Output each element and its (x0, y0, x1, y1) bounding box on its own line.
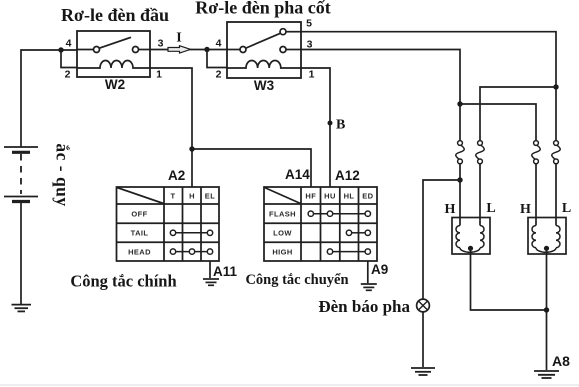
current arrow I (168, 46, 191, 53)
wire W3 terminal 1 down to dimmer switch HU (301, 68, 330, 187)
W3 contact upper pole (280, 29, 286, 35)
wire net 5: W3 terminal 5 to right lamp L (301, 32, 556, 141)
wire battery positive to relay W2 terminal 4 (21, 50, 77, 147)
wire net 5 branch to left lamp L (480, 87, 556, 141)
main switch HEAD contacts (170, 249, 212, 254)
svg-text:I: I (176, 31, 181, 46)
svg-text:Công tắc chính: Công tắc chính (70, 272, 176, 291)
wire H net to indicator lamp (423, 180, 460, 299)
svg-text:4: 4 (216, 38, 222, 50)
svg-text:W3: W3 (254, 78, 275, 93)
svg-text:Rơ-le đèn pha cốt: Rơ-le đèn pha cốt (195, 0, 330, 18)
svg-text:W2: W2 (105, 77, 125, 92)
svg-text:HF: HF (305, 191, 316, 200)
wire branch to dimmer switch HF (192, 149, 311, 187)
svg-text:HL: HL (344, 191, 355, 200)
svg-text:5: 5 (306, 18, 312, 30)
wire net 3: W3 terminal 3 to left lamp H (301, 50, 460, 141)
wire left lamp common (471, 248, 547, 310)
ground battery (12, 305, 32, 312)
svg-text:3: 3 (158, 38, 164, 50)
wire net 3 branch to right lamp H (460, 104, 536, 141)
connector pair on left lamp L wire (476, 141, 484, 218)
node B (328, 121, 333, 126)
wire W2 terminal 1 down to main switch (150, 68, 192, 187)
ground indicator (411, 368, 435, 375)
svg-text:TAIL: TAIL (131, 229, 149, 238)
wire main switch EL to ground A11 (209, 261, 211, 278)
svg-text:H: H (445, 202, 456, 217)
dimmer LOW contacts (346, 230, 370, 235)
wire indicator lamp to ground (422, 312, 424, 367)
svg-text:2: 2 (216, 69, 222, 81)
battery B1 (4, 147, 38, 202)
ground A9 (361, 284, 377, 290)
W2 contact left pole (94, 47, 100, 53)
ground A8 (534, 371, 559, 378)
dimmer FLASH contacts (308, 211, 370, 216)
svg-text:L: L (562, 201, 571, 216)
svg-text:A2: A2 (168, 168, 185, 183)
svg-text:1: 1 (156, 69, 162, 81)
svg-text:4: 4 (66, 38, 72, 50)
svg-text:OFF: OFF (131, 210, 147, 219)
scan artifact line (0, 384, 579, 386)
wire battery negative to ground (20, 203, 22, 304)
W3 coil (227, 60, 301, 68)
node A2/A14 branch (189, 146, 194, 151)
svg-text:L: L (486, 201, 495, 216)
node indicator branch on H wire (457, 177, 462, 182)
svg-text:A12: A12 (335, 168, 360, 183)
node W3 input junction (204, 47, 209, 52)
svg-text:A8: A8 (552, 353, 570, 369)
svg-text:ắc - quy: ắc - quy (53, 143, 73, 206)
W3 lower contact wire (286, 49, 301, 51)
headlamp right box (528, 218, 566, 255)
headlamp right filaments (532, 218, 560, 253)
relay W2 box (77, 31, 150, 77)
W3 upper contact wire (286, 31, 301, 33)
wire dimmer ED to ground A9 (367, 261, 369, 283)
svg-text:FLASH: FLASH (269, 210, 296, 219)
ground A11 (203, 279, 219, 285)
svg-text:ED: ED (362, 191, 373, 200)
relay W3 box (227, 22, 301, 78)
node lamp common junction (544, 307, 549, 312)
main switch table Công tắc chính (117, 187, 220, 261)
main switch TAIL contacts (170, 230, 212, 235)
wire to W3 terminal 2 (207, 50, 227, 68)
W2 contact output wire (139, 49, 151, 51)
indicator lamp Đèn báo pha (417, 299, 430, 312)
connector pair on right lamp H wire (532, 141, 540, 218)
W3 contact common wire (227, 49, 240, 51)
svg-text:2: 2 (65, 69, 71, 81)
wire right lamp common to ground (546, 248, 548, 370)
W3 switch arm (246, 33, 280, 48)
svg-text:LOW: LOW (273, 229, 292, 238)
wire to W2 terminal 2 (61, 50, 77, 68)
W2 coil (77, 61, 150, 68)
svg-text:HIGH: HIGH (272, 248, 292, 257)
wire W2 terminal 3 to W3 terminal 4 (150, 49, 227, 51)
W3 contact lower pole (280, 47, 286, 53)
svg-text:B: B (336, 118, 345, 133)
svg-text:1: 1 (309, 69, 315, 81)
connector pair on left lamp H wire (456, 141, 464, 218)
W3 contact common pole (240, 47, 246, 53)
svg-text:T: T (171, 191, 176, 200)
svg-text:HU: HU (324, 191, 336, 200)
dimmer switch table Công tắc chuyển (264, 187, 377, 261)
svg-text:H: H (520, 202, 531, 217)
svg-text:A14: A14 (285, 167, 310, 182)
svg-text:A11: A11 (213, 264, 238, 279)
headlamp left box (452, 218, 490, 255)
svg-text:Rơ-le đèn đầu: Rơ-le đèn đầu (61, 5, 169, 25)
svg-text:H: H (189, 191, 195, 200)
svg-text:EL: EL (205, 191, 215, 200)
svg-text:HEAD: HEAD (128, 248, 151, 257)
connector pair on right lamp L wire (552, 141, 560, 218)
headlamp left filaments (456, 218, 484, 253)
W2 contact common wire (77, 49, 93, 51)
svg-text:Công tắc chuyển: Công tắc chuyển (245, 272, 348, 288)
W2 switch arm (99, 37, 131, 48)
svg-text:Đèn báo pha: Đèn báo pha (318, 297, 410, 316)
svg-text:A9: A9 (371, 262, 388, 277)
W2 contact right pole (133, 47, 139, 53)
node W2 input junction (58, 47, 63, 52)
node net3 branch (457, 101, 462, 106)
node net5 branch (553, 84, 558, 89)
dimmer HIGH contacts (327, 249, 370, 254)
